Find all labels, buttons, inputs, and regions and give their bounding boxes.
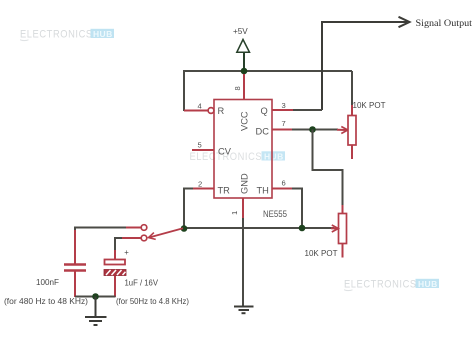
wire pin6 down to bottom bus: [292, 189, 302, 229]
svg-text:DC: DC: [256, 127, 270, 137]
+5V power symbol: [233, 27, 250, 71]
svg-text:5: 5: [198, 141, 202, 150]
pot1 wiper arrow: [337, 127, 348, 134]
switch contact lower: [141, 235, 147, 241]
svg-text:100nF: 100nF: [36, 277, 59, 287]
svg-text:TH: TH: [257, 186, 269, 196]
pin 1 stub GND: [242, 198, 244, 219]
svg-text:2: 2: [198, 180, 202, 189]
ground center: [234, 307, 254, 314]
pin 4 stub: [184, 110, 208, 112]
svg-text:6: 6: [282, 179, 286, 188]
wire pin2 to left riser down to switch junction: [184, 189, 193, 229]
pin 8 stub: [243, 74, 245, 100]
resistor 10K POT 1 body: [348, 105, 356, 159]
svg-text:NE555: NE555: [263, 209, 287, 219]
pin 3 stub: [272, 109, 294, 111]
wire bottom bus TR junction to pot2: [184, 227, 334, 229]
wire DC junction down to pot2: [313, 130, 343, 207]
ground left: [85, 297, 107, 326]
svg-text:3: 3: [282, 101, 286, 110]
svg-text:(for 480 Hz to 48 KHz): (for 480 Hz to 48 KHz): [4, 296, 88, 306]
svg-text:4: 4: [198, 102, 202, 111]
pin 5 stub CV: [192, 149, 214, 151]
svg-text:TR: TR: [218, 186, 231, 196]
pin 6 stub TH: [272, 188, 293, 190]
svg-text:10K POT: 10K POT: [353, 100, 387, 110]
wire lower contact to C2: [115, 238, 122, 251]
capacitor C1 100nF: [64, 230, 86, 297]
wire signal output riser: [322, 22, 407, 110]
signal output arrowhead: [399, 17, 410, 27]
switch contact upper: [141, 225, 147, 231]
wire lower contact stub: [121, 237, 141, 239]
svg-text:R: R: [218, 106, 225, 116]
svg-text:ELECTRONICS: ELECTRONICS: [20, 29, 93, 41]
node DC junction: [309, 126, 316, 133]
pin 7 stub: [272, 129, 293, 131]
switch SPDT pole: [149, 228, 184, 239]
watermark center ELECTRONICS HUB: [190, 151, 286, 163]
capacitor C2 1uF/16V polarized: [104, 250, 126, 297]
watermark top-left ELECTRONICS HUB: [20, 29, 114, 41]
watermark bottom-right ELECTRONICS HUB: [344, 279, 439, 291]
node TH junction: [299, 225, 306, 232]
wire pin1 down to ground: [242, 218, 244, 306]
svg-text:10K POT: 10K POT: [305, 248, 339, 258]
pin 4 R bubble: [208, 108, 214, 114]
svg-text:Signal Output: Signal Output: [416, 18, 473, 29]
op-amp U1 NE555 body: [214, 100, 272, 199]
svg-text:+: +: [124, 248, 129, 257]
op-amp U1 NE555 border: [214, 100, 272, 199]
svg-text:HUB: HUB: [93, 29, 113, 39]
wire bottom cap bus: [75, 296, 116, 298]
wire pin3 to riser: [293, 109, 322, 111]
node TR switch junction: [181, 225, 188, 232]
svg-text:7: 7: [282, 119, 286, 128]
wire pin7 to junction and pot1: [292, 129, 338, 131]
svg-text:1uF / 16V: 1uF / 16V: [125, 278, 159, 288]
svg-text:GND: GND: [240, 173, 250, 194]
resistor 10K POT 2 body: [339, 205, 347, 258]
pin 2 stub TR: [193, 188, 215, 190]
svg-text:8: 8: [233, 86, 242, 90]
svg-text:(for 50Hz to 4.8 KHz): (for 50Hz to 4.8 KHz): [116, 296, 189, 306]
wire pot1 drop: [351, 71, 353, 107]
svg-text:VCC: VCC: [240, 111, 250, 131]
svg-text:Q: Q: [261, 106, 268, 116]
node +5V junction: [241, 68, 248, 75]
svg-text:1: 1: [230, 211, 239, 215]
svg-text:CV: CV: [218, 147, 232, 157]
wire upper contact to C1: [75, 228, 126, 253]
svg-text:HUB: HUB: [418, 279, 438, 289]
pot2 wiper arrow: [331, 225, 338, 232]
wire top bus from pin4 corner to pot1 drop: [184, 71, 352, 111]
svg-text:HUB: HUB: [264, 151, 284, 161]
wire upper contact stub: [125, 227, 141, 229]
svg-text:+5V: +5V: [233, 27, 248, 36]
svg-text:ELECTRONICS: ELECTRONICS: [344, 279, 417, 291]
node cap ground junction: [92, 293, 99, 300]
